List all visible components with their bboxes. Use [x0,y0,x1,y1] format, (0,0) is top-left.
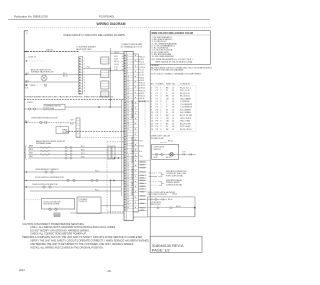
svg-text:P1: P1 [156,101,158,103]
oven light switch contact [155,153,157,155]
svg-text:10: 10 [127,155,129,157]
svg-text:13: 13 [84,90,86,92]
svg-text:P2: P2 [156,104,158,106]
wire table [150,83,196,131]
svg-text:9: 9 [84,80,85,82]
svg-text:8: 8 [151,107,152,109]
vertical bus e [121,100,123,196]
anti-tip wire [24,74,101,76]
svg-text:2: 2 [160,107,161,109]
svg-text:P2-2: P2-2 [95,189,99,191]
surface output wire [65,106,122,108]
svg-text:19: 19 [127,178,129,180]
svg-text:BR-16: BR-16 [140,162,145,164]
svg-text:GA.: GA. [172,83,176,86]
svg-text:12: 12 [172,118,174,120]
ignitor strip output wire [80,136,124,138]
svg-text:4: 4 [151,96,152,98]
svg-text:W-12: W-12 [140,59,144,61]
svg-text:W: W [166,112,168,114]
svg-text:TO K: TO K [139,156,144,158]
svg-text:V-16: V-16 [140,175,143,177]
svg-text:P9: P9 [156,118,158,120]
table bottom rule [150,130,196,132]
svg-text:V: V [166,101,168,103]
svg-text:11: 11 [84,85,86,87]
svg-text:3: 3 [84,63,85,65]
svg-text:ELECTRONIC OVEN CONTROL: ELECTRONIC OVEN CONTROL [131,137,133,163]
svg-text:13: 13 [127,162,129,164]
tap wire y85 [24,84,44,86]
ground terminal mark [54,213,60,217]
bake row contact 4b [70,157,72,159]
svg-text:OR-14 BAKE: OR-14 BAKE [180,97,192,100]
svg-text:BR-16: BR-16 [140,96,145,98]
bake wire 4 [28,157,124,159]
svg-text:BK-12: BK-12 [140,186,145,188]
svg-text:(*)- SEE NOTES BELOW DIAGRAM: (*)- SEE NOTES BELOW DIAGRAM [151,69,184,72]
door lock motor box [42,199,75,210]
svg-text:W-14: W-14 [70,124,74,126]
svg-text:P1-2: P1-2 [87,67,91,69]
svg-text:15: 15 [127,89,129,91]
svg-text:BK: BK [166,96,169,98]
svg-text:4: 4 [84,66,85,68]
svg-text:1: 1 [160,110,161,112]
svg-text:5: 5 [127,141,128,143]
oven light terminal ticks [182,153,184,155]
svg-text:14: 14 [127,86,129,88]
svg-text:10: 10 [127,76,129,78]
svg-text:3: 3 [160,93,161,95]
svg-text:V-14 BROIL: V-14 BROIL [180,101,190,103]
svg-text:N W-12: N W-12 [27,102,33,104]
svg-text:14: 14 [151,123,153,125]
bake row contact 3a [65,153,67,155]
svg-text:TO ELECTRONIC OVEN CONTROL: TO ELECTRONIC OVEN CONTROL [131,166,133,195]
svg-text:BK-14: BK-14 [140,64,145,66]
svg-text:BK-16: BK-16 [168,199,173,201]
motor stub [24,199,42,201]
svg-text:25: 25 [127,194,129,196]
svg-text:16: 16 [127,92,129,94]
svg-text:14: 14 [172,121,174,123]
table side dashed rule [144,100,146,128]
svg-text:GN-14: GN-14 [140,196,145,198]
svg-text:26: 26 [127,196,129,198]
svg-text:BK-16 BK-16: BK-16 BK-16 [139,101,149,103]
junction door 2 [113,180,115,182]
svg-text:15: 15 [151,126,153,128]
svg-text:W-12 TO N: W-12 TO N [180,90,190,92]
svg-text:OR: OR [166,98,169,100]
svg-text:W-16: W-16 [140,192,144,194]
anti-tip switch symbol [41,75,47,81]
svg-text:W-12: W-12 [114,56,118,58]
svg-text:BK-14: BK-14 [114,61,118,63]
svg-text:WIRE GAUGE EX: BK-12 (BLACK 1: WIRE GAUGE EX: BK-12 (BLACK 12GA) [155,60,192,63]
svg-text:2: 2 [151,90,152,92]
svg-text:26: 26 [127,118,129,120]
svg-text:P8: P8 [156,110,158,112]
svg-text:W-14 SPARK: W-14 SPARK [180,111,192,114]
svg-text:1: 1 [160,115,161,117]
junction surface [98,106,100,108]
surface contact 2 [33,108,35,110]
svg-text:P8: P8 [156,112,158,114]
svg-text:W-16: W-16 [140,93,144,95]
svg-text:LOCK ASSY: LOCK ASSY [79,198,89,201]
svg-text:9: 9 [151,110,152,112]
svg-text:P9: P9 [156,115,158,117]
svg-text:OR-14: OR-14 [139,146,144,148]
svg-text:17: 17 [127,94,129,96]
svg-text:OR-14: OR-14 [114,64,119,66]
svg-text:3: 3 [151,93,152,95]
svg-text:21: 21 [127,105,129,107]
svg-text:2: 2 [160,118,161,120]
svg-text:18: 18 [127,97,129,99]
ignitor contact 2 [45,121,48,124]
svg-text:6: 6 [160,101,161,103]
bus d feed wire [110,52,124,54]
svg-text:PAGE: 1/2: PAGE: 1/2 [152,249,170,253]
strip pin contact marks [125,55,126,56]
wire L1 supply [24,51,78,53]
svg-text:8: 8 [84,77,85,79]
svg-text:P2: P2 [156,107,158,109]
spark module drop wire [60,123,62,129]
junction L1 [26,51,28,53]
svg-text:7: 7 [151,104,152,106]
svg-text:WIRE COLOR CODE-CODIGO COLOR: WIRE COLOR CODE-CODIGO COLOR [151,33,193,35]
svg-text:7: 7 [127,68,128,70]
surface valve wire [24,81,78,83]
svg-text:P9-1: P9-1 [26,73,30,75]
svg-text:BAKE: BAKE [29,145,33,148]
svg-text:W-14: W-14 [140,80,144,82]
svg-text:OR-14: OR-14 [140,67,145,69]
svg-text:BK-16: BK-16 [140,90,145,92]
junction door 1 [110,180,112,182]
svg-text:13: 13 [151,121,153,123]
svg-text:BK: BK [166,115,169,117]
svg-text:27: 27 [127,120,129,122]
svg-text:16: 16 [172,126,174,128]
bake wire 1 [28,147,124,149]
svg-text:22: 22 [127,107,129,109]
oven sensor wire [24,171,124,173]
svg-text:W-16: W-16 [140,203,144,205]
svg-text:12: 12 [84,88,86,90]
svg-text:5: 5 [160,126,161,128]
svg-text:6: 6 [84,71,85,73]
svg-text:120 VAC 60 HZ: 120 VAC 60 HZ [151,137,165,140]
wire color code legend box [150,31,210,65]
svg-text:PK-16: PK-16 [140,172,145,174]
terminal strip S2 [78,57,82,95]
junction dot row4 [26,81,27,82]
bake row contact 2a [65,150,67,152]
svg-text:1: 1 [127,131,128,133]
svg-text:Y: Y [166,104,168,106]
svg-text:SWITCH: SWITCH [154,149,162,151]
ignitor connector strip [76,118,80,138]
svg-text:1: 1 [84,58,85,60]
latch wire 1 [148,198,167,200]
plug box 1 [101,57,109,64]
svg-text:23: 23 [127,189,129,191]
latch control box [77,197,101,213]
svg-text:P1: P1 [156,90,158,92]
svg-text:28: 28 [127,202,129,204]
svg-text:PIN: PIN [160,84,164,86]
svg-text:CONSOLE (NOTA): CONSOLE (NOTA) [166,183,182,186]
svg-text:BL-16: BL-16 [140,165,144,167]
svg-text:8: 8 [127,71,128,73]
small switch contact below [44,84,46,86]
svg-text:23: 23 [127,110,129,112]
strip mid wire out [138,159,150,161]
svg-text:SWITCHES: SWITCHES [45,108,55,110]
oven light switch box [152,144,179,159]
door switch contact 1 [67,179,69,181]
svg-text:11: 11 [127,79,129,81]
door switch contact 2 [73,179,75,181]
bake row contact 1b [70,146,72,148]
svg-text:BROIL: BROIL [29,149,34,151]
surface ignitor switch box [44,104,65,109]
svg-text:5: 5 [127,63,128,65]
lock border junction [26,186,27,187]
svg-text:BK-10: BK-10 [115,52,120,54]
svg-text:V-14: V-14 [114,66,117,68]
svg-text:OR: OR [166,118,169,120]
oven ignitor wire [24,122,76,124]
EOC dashed enclosure bottom [107,211,124,213]
svg-text:1: 1 [160,87,161,89]
S2 output wire [83,67,111,69]
svg-text:10: 10 [84,82,86,84]
svg-text:OVEN CIRCUIT /\ CIRCUITO DEL H: OVEN CIRCUIT /\ CIRCUITO DEL HORNO 30 AM… [63,33,125,37]
surface wire [24,108,44,110]
svg-text:16: 16 [172,123,174,125]
svg-text:P9-2: P9-2 [25,85,28,87]
svg-text:Publication No: 5995611708: Publication No: 5995611708 [14,14,48,18]
surface contact 1 [29,108,31,110]
spark module box [56,127,68,134]
svg-text:11: 11 [151,115,153,117]
svg-text:25: 25 [127,115,129,117]
svg-text:HORNEAR / ASAR: HORNEAR / ASAR [36,142,52,145]
svg-text:30: 30 [127,207,129,209]
svg-text:Y-16: Y-16 [140,75,143,77]
svg-text:R-14: R-14 [140,62,144,64]
svg-text:BK-16: BK-16 [166,157,171,159]
table right dashed edge [195,86,197,132]
pin ladder right [133,54,138,212]
svg-text:2: 2 [84,61,85,63]
svg-text:Y-16: Y-16 [140,189,143,191]
svg-text:12: 12 [127,81,129,83]
svg-text:BK-16 LATCH: BK-16 LATCH [180,128,192,131]
main connector strip P1 [124,52,133,221]
svg-text:8: 8 [127,149,128,151]
junction divider [110,99,112,101]
wire to strip top [83,51,124,53]
svg-text:OVEN DOOR LOCK SWITCH: OVEN DOOR LOCK SWITCH [32,184,58,186]
svg-text:P1-9 BK-16: P1-9 BK-16 [79,201,87,203]
plug box 3 [101,81,109,89]
schematic left border [23,31,25,220]
svg-text:1: 1 [151,87,152,89]
svg-text:P1: P1 [156,93,158,95]
oven lamp [170,153,173,156]
solid wire legend sample 1 [149,175,157,177]
wire stub [24,60,44,62]
legend notes below box [151,65,213,75]
junction dot row2 [26,60,27,61]
svg-text:Y-16 SENSOR: Y-16 SENSOR [180,104,193,106]
svg-text:14: 14 [172,112,174,114]
svg-text:20: 20 [127,181,129,183]
svg-text:P1-8: P1-8 [81,156,85,158]
svg-text:R-14: R-14 [114,59,117,61]
svg-text:6: 6 [127,65,128,67]
svg-text:-16-: -16- [107,269,112,273]
svg-text:6: 6 [127,144,128,146]
svg-text:BK-16: BK-16 [173,194,178,196]
svg-text:R: R [166,93,168,95]
svg-text:24: 24 [127,191,129,193]
svg-text:V-14: V-14 [139,151,142,153]
svg-text:17: 17 [127,173,129,175]
bake wire 3 [28,154,124,156]
svg-text:12: 12 [172,90,174,92]
svg-text:14: 14 [172,93,174,95]
ignitor contact 1 [40,121,43,124]
svg-text:16: 16 [172,107,174,109]
svg-text:P1: P1 [156,87,158,89]
svg-text:BK-12 TIP SW: BK-12 TIP SW [180,115,192,117]
svg-text:18: 18 [127,175,129,177]
svg-text:6: 6 [151,101,152,103]
svg-text:P2-1: P2-1 [95,170,99,172]
svg-text:IGN-2: IGN-2 [29,156,33,158]
strip right pin stubs and wire codes [138,56,140,58]
svg-text:14: 14 [172,98,174,100]
svg-text:12: 12 [172,87,174,89]
svg-text:R-16: R-16 [140,178,144,180]
svg-text:2: 2 [160,112,161,114]
svg-text:TO K: TO K [139,141,144,143]
surface divider wire [24,99,124,101]
S2 pin marks [79,58,80,59]
svg-text:BK-14: BK-14 [140,180,145,182]
surface dotted link [44,110,65,112]
strip pin cells [124,53,133,55]
bake connector b [112,146,115,159]
svg-text:OR-12: OR-12 [140,85,145,87]
door latch circuit box [148,197,195,217]
svg-text:L1 BK-12: L1 BK-12 [28,56,36,58]
svg-text:OR-12 SURF: OR-12 SURF [180,118,192,120]
strip output wire to latch [133,216,148,218]
svg-text:14: 14 [172,110,174,112]
svg-text:INSTALL ALL WIRING AND COVERS: INSTALL ALL WIRING AND COVERS IN THE ORI… [30,246,104,249]
svg-text:GN-14 GND: GN-14 GND [180,121,191,123]
svg-text:K: K [26,33,28,35]
svg-text:2: 2 [160,90,161,92]
junction dot row3 [26,74,27,75]
motor wire [101,205,124,207]
EOC dashed enclosure top [107,141,124,143]
svg-text:30: 30 [127,128,129,130]
svg-text:SURFACE VALVE SW 120V: SURFACE VALVE SW 120V [31,71,54,74]
svg-text:BK-14 W-12: BK-14 W-12 [180,96,190,98]
plug box 4 [101,91,109,97]
oven light wire [152,153,196,155]
svg-text:W-14 SPARK: W-14 SPARK [180,109,192,112]
svg-text:16: 16 [127,170,129,172]
svg-text:16: 16 [151,129,153,131]
svg-text:BK-12: BK-12 [63,75,68,77]
svg-text:P1-6: P1-6 [81,149,85,151]
legend title rule [150,34,210,36]
svg-text:W: W [166,90,168,92]
door border junction [26,180,27,181]
bottom link wire [70,212,124,214]
svg-text:TO K: TO K [70,120,75,122]
svg-text:12: 12 [127,160,129,162]
bake row contact 1a [65,146,67,148]
svg-text:V-14: V-14 [140,69,143,71]
plug box 2 [101,70,109,78]
door lock wire 2 [30,190,121,192]
svg-text:BL-16: BL-16 [140,98,144,100]
door switch wire [24,179,124,181]
svg-text:4: 4 [160,96,161,98]
svg-text:NO TERMINAL BLOCK P1: NO TERMINAL BLOCK P1 [121,46,142,49]
svg-text:29: 29 [127,204,129,206]
latch wire 2 [148,207,195,209]
svg-text:BK-16: BK-16 [176,206,181,208]
svg-text:5: 5 [84,69,85,71]
svg-text:12: 12 [151,118,153,120]
svg-text:P9: P9 [156,126,158,128]
motor contact 2 [55,208,58,211]
sensor border junction [26,171,27,172]
svg-text:IGN-1: IGN-1 [29,153,33,155]
svg-text:UNLOCKED POSITION: UNLOCKED POSITION [148,194,168,196]
vertical bus d [109,48,111,107]
svg-text:CONEXION: CONEXION [180,84,191,86]
bake group brace [25,146,27,160]
bracket 1 [159,173,162,177]
bus d branch [110,70,124,72]
schematic top-left corner mark [24,30,28,32]
svg-text:POINT (VER NOTA): POINT (VER NOTA) [166,175,183,178]
svg-text:9: 9 [127,152,128,154]
svg-text:TO K: TO K [25,88,30,90]
svg-text:BK-16: BK-16 [140,83,145,85]
bake wire 2 [28,150,124,152]
svg-text:4: 4 [127,60,128,62]
door plug contacts [91,179,93,181]
dotted wire legend sample 2 [149,184,157,186]
svg-text:P1-5: P1-5 [81,146,85,148]
svg-text:W-16: W-16 [154,157,158,159]
